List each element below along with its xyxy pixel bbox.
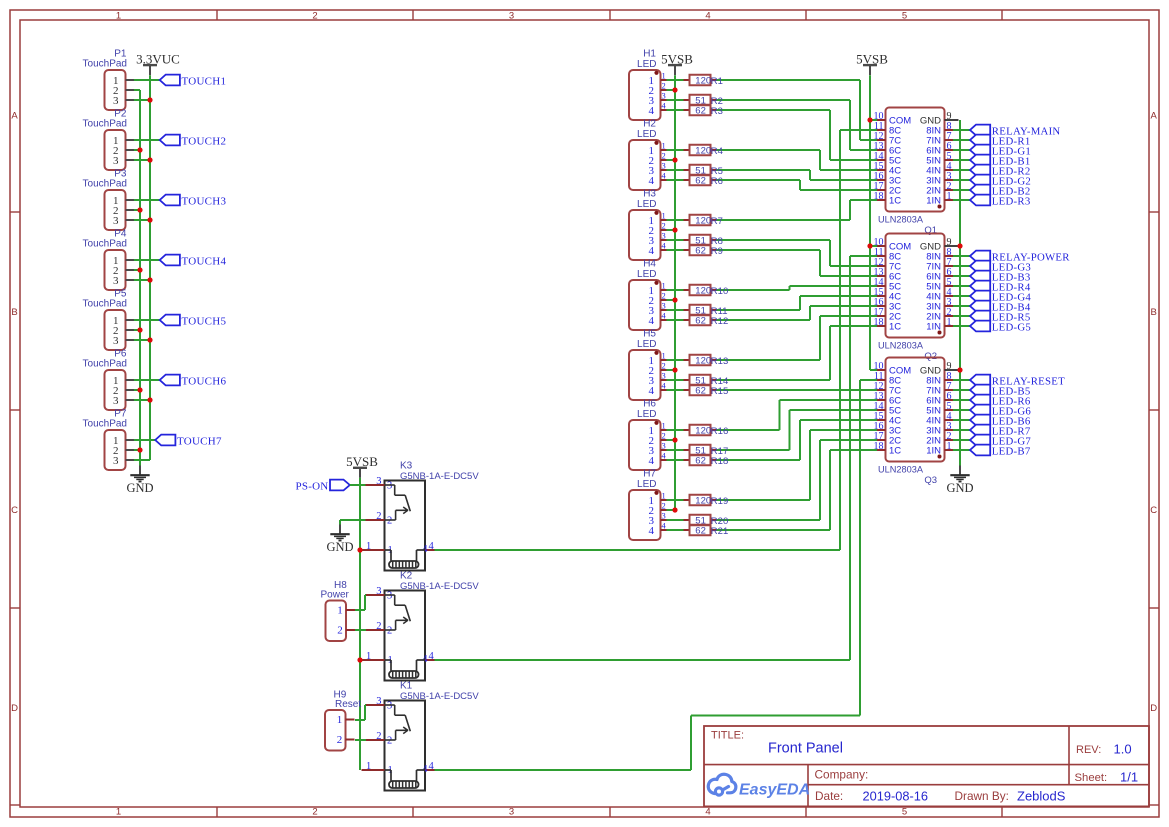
svg-text:LED: LED bbox=[637, 409, 656, 420]
svg-text:TOUCH2: TOUCH2 bbox=[182, 136, 227, 148]
svg-text:1.0: 1.0 bbox=[1114, 741, 1132, 756]
svg-text:EasyEDA: EasyEDA bbox=[739, 782, 810, 799]
svg-text:120: 120 bbox=[695, 146, 711, 157]
svg-text:TouchPad: TouchPad bbox=[83, 419, 127, 430]
svg-text:R12: R12 bbox=[711, 316, 728, 327]
svg-text:2: 2 bbox=[662, 221, 666, 231]
svg-text:18: 18 bbox=[874, 441, 884, 452]
svg-text:3: 3 bbox=[387, 481, 392, 492]
svg-text:1: 1 bbox=[337, 604, 343, 616]
svg-text:3: 3 bbox=[113, 275, 119, 287]
svg-text:2: 2 bbox=[662, 501, 666, 511]
svg-text:1C: 1C bbox=[889, 445, 901, 456]
svg-text:K1: K1 bbox=[400, 681, 413, 692]
svg-text:120: 120 bbox=[695, 496, 711, 507]
svg-text:3: 3 bbox=[113, 455, 119, 467]
svg-text:3: 3 bbox=[113, 215, 119, 227]
svg-text:H7: H7 bbox=[643, 469, 656, 480]
svg-text:TOUCH1: TOUCH1 bbox=[182, 76, 227, 88]
svg-text:120: 120 bbox=[695, 216, 711, 227]
svg-text:1: 1 bbox=[366, 651, 371, 662]
svg-text:2: 2 bbox=[312, 10, 317, 21]
svg-text:D: D bbox=[11, 703, 18, 714]
svg-text:TouchPad: TouchPad bbox=[83, 299, 127, 310]
svg-text:18: 18 bbox=[874, 317, 884, 328]
svg-text:3: 3 bbox=[662, 161, 666, 171]
svg-text:R9: R9 bbox=[711, 246, 723, 257]
svg-text:Q3: Q3 bbox=[924, 475, 937, 486]
svg-text:TOUCH6: TOUCH6 bbox=[182, 376, 227, 388]
svg-text:A: A bbox=[11, 110, 18, 121]
svg-text:LED-B7: LED-B7 bbox=[992, 446, 1031, 458]
svg-text:R10: R10 bbox=[711, 286, 728, 297]
svg-text:4: 4 bbox=[649, 315, 655, 327]
svg-text:G5NB-1A-E-DC5V: G5NB-1A-E-DC5V bbox=[400, 691, 479, 702]
svg-text:R13: R13 bbox=[711, 356, 728, 367]
svg-text:H2: H2 bbox=[643, 119, 656, 130]
svg-text:Date:: Date: bbox=[815, 789, 843, 803]
svg-text:4: 4 bbox=[705, 806, 710, 817]
svg-text:3: 3 bbox=[662, 511, 666, 521]
svg-text:1: 1 bbox=[662, 491, 666, 501]
svg-text:3: 3 bbox=[662, 371, 666, 381]
svg-text:1: 1 bbox=[662, 141, 666, 151]
svg-text:1: 1 bbox=[947, 191, 952, 202]
svg-text:ULN2803A: ULN2803A bbox=[878, 215, 924, 225]
svg-text:2: 2 bbox=[387, 735, 392, 746]
svg-text:2: 2 bbox=[337, 734, 343, 746]
svg-text:K2: K2 bbox=[400, 571, 413, 582]
svg-text:TOUCH4: TOUCH4 bbox=[182, 256, 227, 268]
svg-text:1: 1 bbox=[662, 281, 666, 291]
svg-text:62: 62 bbox=[695, 456, 706, 467]
svg-text:ULN2803A: ULN2803A bbox=[878, 341, 924, 351]
svg-text:G5NB-1A-E-DC5V: G5NB-1A-E-DC5V bbox=[400, 471, 479, 482]
svg-text:5: 5 bbox=[902, 10, 907, 21]
svg-text:R4: R4 bbox=[711, 146, 723, 157]
svg-text:TOUCH3: TOUCH3 bbox=[182, 196, 227, 208]
svg-text:B: B bbox=[11, 307, 17, 318]
svg-text:4: 4 bbox=[649, 105, 655, 117]
svg-text:3: 3 bbox=[113, 155, 119, 167]
svg-text:3.3VUC: 3.3VUC bbox=[136, 51, 180, 66]
svg-text:H1: H1 bbox=[643, 49, 656, 60]
svg-text:1: 1 bbox=[116, 806, 121, 817]
svg-text:A: A bbox=[1151, 110, 1158, 121]
svg-text:3: 3 bbox=[376, 476, 381, 487]
svg-text:62: 62 bbox=[695, 176, 706, 187]
svg-text:R7: R7 bbox=[711, 216, 723, 227]
svg-text:1: 1 bbox=[366, 541, 371, 552]
svg-text:4: 4 bbox=[429, 651, 435, 662]
svg-text:120: 120 bbox=[695, 286, 711, 297]
svg-text:18: 18 bbox=[874, 191, 884, 202]
svg-text:R3: R3 bbox=[711, 106, 723, 117]
svg-text:2: 2 bbox=[662, 151, 666, 161]
svg-text:2: 2 bbox=[387, 515, 392, 526]
svg-text:Front Panel: Front Panel bbox=[768, 740, 843, 756]
svg-text:ZeblodS: ZeblodS bbox=[1017, 789, 1066, 804]
svg-text:H6: H6 bbox=[643, 399, 656, 410]
svg-text:1: 1 bbox=[337, 714, 343, 726]
svg-text:2: 2 bbox=[662, 361, 666, 371]
svg-text:4: 4 bbox=[429, 541, 435, 552]
svg-text:62: 62 bbox=[695, 106, 706, 117]
svg-text:R18: R18 bbox=[711, 456, 728, 467]
svg-text:4: 4 bbox=[649, 455, 655, 467]
svg-text:4: 4 bbox=[649, 175, 655, 187]
svg-text:LED: LED bbox=[637, 59, 656, 70]
svg-text:2: 2 bbox=[662, 431, 666, 441]
svg-text:62: 62 bbox=[695, 526, 706, 537]
svg-text:3: 3 bbox=[509, 806, 514, 817]
svg-text:3: 3 bbox=[387, 701, 392, 712]
svg-text:R6: R6 bbox=[711, 176, 723, 187]
svg-text:2: 2 bbox=[337, 624, 343, 636]
svg-text:1C: 1C bbox=[889, 195, 901, 206]
svg-text:C: C bbox=[1150, 505, 1157, 516]
svg-text:TOUCH7: TOUCH7 bbox=[177, 436, 222, 448]
svg-text:LED: LED bbox=[637, 339, 656, 350]
svg-text:GND: GND bbox=[126, 481, 153, 495]
svg-text:2019-08-16: 2019-08-16 bbox=[863, 788, 928, 803]
svg-text:TouchPad: TouchPad bbox=[83, 359, 127, 370]
svg-text:R16: R16 bbox=[711, 426, 728, 437]
svg-text:TouchPad: TouchPad bbox=[83, 239, 127, 250]
svg-text:4: 4 bbox=[705, 10, 710, 21]
svg-text:3: 3 bbox=[662, 441, 666, 451]
svg-text:R19: R19 bbox=[711, 496, 728, 507]
svg-text:B: B bbox=[1151, 307, 1157, 318]
svg-text:TITLE:: TITLE: bbox=[711, 730, 744, 742]
svg-text:LED: LED bbox=[637, 199, 656, 210]
svg-text:3: 3 bbox=[113, 335, 119, 347]
svg-text:3: 3 bbox=[113, 395, 119, 407]
svg-text:G5NB-1A-E-DC5V: G5NB-1A-E-DC5V bbox=[400, 581, 479, 592]
svg-text:1: 1 bbox=[662, 211, 666, 221]
svg-text:LED: LED bbox=[637, 129, 656, 140]
svg-text:1: 1 bbox=[662, 71, 666, 81]
svg-text:H5: H5 bbox=[643, 329, 656, 340]
svg-text:TouchPad: TouchPad bbox=[83, 179, 127, 190]
svg-text:1: 1 bbox=[662, 421, 666, 431]
svg-text:H3: H3 bbox=[643, 189, 656, 200]
svg-text:C: C bbox=[11, 505, 18, 516]
svg-text:GND: GND bbox=[946, 481, 973, 495]
svg-text:2: 2 bbox=[662, 291, 666, 301]
svg-text:2: 2 bbox=[662, 81, 666, 91]
svg-text:LED: LED bbox=[637, 479, 656, 490]
svg-text:GND: GND bbox=[326, 540, 353, 554]
svg-text:62: 62 bbox=[695, 386, 706, 397]
svg-text:TouchPad: TouchPad bbox=[83, 119, 127, 130]
svg-text:3: 3 bbox=[662, 301, 666, 311]
svg-text:Company:: Company: bbox=[815, 767, 869, 781]
svg-text:62: 62 bbox=[695, 316, 706, 327]
svg-text:D: D bbox=[1150, 703, 1157, 714]
svg-text:120: 120 bbox=[695, 76, 711, 87]
svg-text:R15: R15 bbox=[711, 386, 728, 397]
svg-text:TouchPad: TouchPad bbox=[83, 59, 127, 70]
svg-text:120: 120 bbox=[695, 426, 711, 437]
svg-text:5: 5 bbox=[902, 806, 907, 817]
svg-text:LED-G5: LED-G5 bbox=[992, 322, 1031, 334]
svg-text:LED: LED bbox=[637, 269, 656, 280]
svg-text:4: 4 bbox=[649, 385, 655, 397]
svg-text:Sheet:: Sheet: bbox=[1075, 772, 1108, 784]
svg-text:3: 3 bbox=[662, 91, 666, 101]
svg-text:3: 3 bbox=[509, 10, 514, 21]
svg-text:1C: 1C bbox=[889, 321, 901, 332]
svg-text:Reset: Reset bbox=[335, 699, 361, 710]
svg-text:TOUCH5: TOUCH5 bbox=[182, 316, 227, 328]
svg-text:ULN2803A: ULN2803A bbox=[878, 465, 924, 475]
svg-text:120: 120 bbox=[695, 356, 711, 367]
svg-text:4: 4 bbox=[649, 245, 655, 257]
svg-text:1: 1 bbox=[662, 351, 666, 361]
svg-text:2: 2 bbox=[387, 625, 392, 636]
svg-text:3: 3 bbox=[387, 591, 392, 602]
svg-text:62: 62 bbox=[695, 246, 706, 257]
svg-text:1: 1 bbox=[366, 761, 371, 772]
svg-text:1/1: 1/1 bbox=[1120, 769, 1138, 784]
svg-text:3: 3 bbox=[113, 95, 119, 107]
svg-text:4: 4 bbox=[429, 761, 435, 772]
svg-text:1: 1 bbox=[947, 317, 952, 328]
svg-text:Power: Power bbox=[321, 590, 350, 601]
svg-text:2: 2 bbox=[376, 511, 381, 522]
svg-text:Drawn By:: Drawn By: bbox=[955, 789, 1009, 803]
svg-text:LED-R3: LED-R3 bbox=[992, 196, 1031, 208]
svg-text:PS-ON: PS-ON bbox=[295, 481, 328, 493]
svg-text:R1: R1 bbox=[711, 76, 723, 87]
svg-text:R21: R21 bbox=[711, 526, 728, 537]
svg-text:3: 3 bbox=[662, 231, 666, 241]
svg-text:4: 4 bbox=[649, 525, 655, 537]
svg-text:REV:: REV: bbox=[1076, 744, 1101, 756]
svg-text:1: 1 bbox=[947, 441, 952, 452]
svg-text:2: 2 bbox=[312, 806, 317, 817]
svg-text:K3: K3 bbox=[400, 461, 413, 472]
svg-text:1: 1 bbox=[116, 10, 121, 21]
svg-text:H4: H4 bbox=[643, 259, 656, 270]
